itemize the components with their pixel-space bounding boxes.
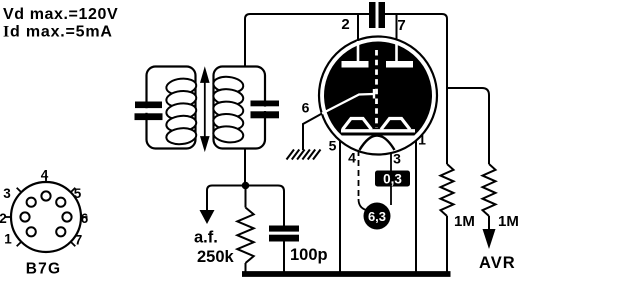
- grid (dashed): [375, 50, 378, 128]
- wire: secondary top to top rail: [245, 14, 369, 67]
- value circle 6,3 (heater voltage): [364, 203, 391, 230]
- anode plate (right): [386, 61, 413, 68]
- B7G pin number labels: [0, 168, 89, 248]
- svg-text:7: 7: [75, 233, 83, 248]
- coil L1 primary winding: [166, 77, 197, 145]
- wire: junction to a.f. arrow: [207, 186, 246, 211]
- svg-text:2: 2: [341, 16, 349, 33]
- svg-text:B7G: B7G: [26, 261, 61, 278]
- wire: pin 6 to chassis ground: [303, 114, 322, 151]
- wire: pin 4 (dashed heater): [358, 150, 360, 199]
- svg-text:0,3: 0,3: [383, 172, 402, 187]
- transformer secondary tank loop: [214, 67, 266, 149]
- cathode base stripe: [341, 129, 415, 132]
- wire: C4 to ground rail: [283, 242, 285, 274]
- transformer primary tank loop: [147, 67, 196, 149]
- resistor R1 250k: [245, 186, 247, 208]
- anode stem pin 2: [357, 41, 360, 62]
- svg-text:6,3: 6,3: [368, 209, 386, 224]
- svg-text:4: 4: [348, 150, 356, 166]
- B7G pin ticks: [5, 176, 88, 247]
- svg-text:a.f.: a.f.: [194, 229, 218, 247]
- svg-text:7: 7: [397, 17, 405, 34]
- wire: anode pin 7 drop: [396, 14, 398, 40]
- svg-text:AVR: AVR: [479, 254, 516, 272]
- svg-text:5: 5: [329, 138, 337, 154]
- anode plate (left): [342, 61, 369, 68]
- ground (chassis): [287, 150, 321, 160]
- capacitor C4 100p: [269, 226, 299, 232]
- svg-text:3: 3: [393, 151, 401, 167]
- node junction: [242, 182, 250, 190]
- svg-text:1M: 1M: [498, 213, 519, 230]
- heater arc: [360, 136, 395, 151]
- tube socket B7G outline: [11, 182, 81, 252]
- wire: branch to R3: [447, 88, 489, 164]
- a.f. output arrow: [200, 210, 215, 224]
- cathode chevron (right): [381, 119, 410, 130]
- resistor R2 1M (right edge): [441, 164, 454, 216]
- wire: top rail right segment: [385, 14, 447, 164]
- wire: junction to C4: [246, 186, 285, 227]
- capacitor C3 (anode coupling): [369, 2, 376, 28]
- capacitor C1 (primary tuning): [144, 108, 150, 113]
- svg-text:2: 2: [0, 211, 7, 226]
- tube U1 envelope: [319, 37, 437, 155]
- svg-text:Vd max.=120V: Vd max.=120V: [3, 6, 118, 23]
- resistor R3 1M: [483, 164, 496, 216]
- wire: anode pin 2 drop: [357, 14, 359, 40]
- svg-text:250k: 250k: [197, 248, 235, 266]
- value box 0,3 (heater current): [375, 171, 410, 187]
- wire: pin 3 through 0,3: [390, 152, 392, 171]
- wire: secondary bottom to junction: [244, 149, 246, 187]
- svg-text:1: 1: [418, 132, 426, 148]
- svg-text:6: 6: [302, 100, 310, 116]
- svg-text:Id max.=5mA: Id max.=5mA: [3, 24, 113, 41]
- svg-text:5: 5: [74, 186, 82, 201]
- coil L2 secondary winding: [213, 75, 244, 143]
- svg-text:100p: 100p: [290, 246, 328, 264]
- tuning arrow (coupling): [201, 70, 208, 150]
- svg-text:3: 3: [3, 186, 11, 201]
- ground rail (bottom): [242, 271, 451, 277]
- AVR arrow: [483, 229, 496, 249]
- wire: R2 to rail: [446, 216, 448, 273]
- grid lead to pin 6 (inside): [322, 94, 373, 114]
- wire: pin 5 to rail: [339, 140, 341, 273]
- cathode chevron (left): [343, 119, 372, 130]
- B7G pin holes: [20, 191, 71, 236]
- svg-text:4: 4: [41, 168, 49, 183]
- svg-text:1: 1: [4, 232, 12, 247]
- tube U1 interior (electrode block): [324, 42, 432, 136]
- svg-text:6: 6: [81, 211, 89, 226]
- svg-text:1M: 1M: [454, 213, 475, 230]
- wire: pin 1 to rail: [415, 140, 417, 273]
- capacitor C2 (secondary tuning): [262, 107, 268, 111]
- anode stem pin 7: [395, 41, 398, 62]
